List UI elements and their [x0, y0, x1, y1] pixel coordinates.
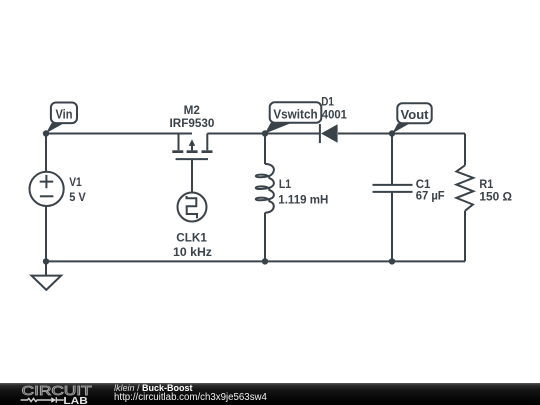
wire M2 gate to CLK1 — [191, 159, 193, 193]
label L1 — [279, 177, 291, 191]
svg-text:LAB: LAB — [63, 396, 88, 405]
wire Vin node to M2 source — [46, 133, 192, 135]
clock source CLK1 — [178, 193, 207, 222]
value 67 uF — [416, 189, 445, 203]
svg-text:V1: V1 — [69, 175, 82, 189]
svg-text:Vswitch: Vswitch — [273, 107, 317, 122]
value 150 Ohm — [479, 190, 512, 204]
wire ground stub — [45, 261, 47, 275]
value 5 V — [69, 190, 86, 204]
resistor R1 — [456, 165, 473, 211]
value 10 kHz — [173, 245, 212, 259]
ground — [32, 276, 62, 290]
node Vout junction dot — [389, 130, 395, 136]
wire bottom ground rail — [46, 260, 465, 262]
footer bar — [0, 383, 540, 405]
svg-text:Vout: Vout — [401, 107, 430, 122]
svg-text:D1: D1 — [321, 94, 334, 108]
value 4001 — [322, 107, 347, 121]
ground rail junction dot L1 — [262, 258, 268, 264]
node flag Vin — [46, 103, 77, 134]
wire R1 bottom lead — [464, 211, 466, 262]
svg-text:Vin: Vin — [56, 107, 73, 122]
ground rail junction dot left — [43, 258, 49, 264]
svg-text:67 µF: 67 µF — [416, 189, 445, 203]
label M2 — [184, 103, 200, 117]
wire V1 bottom lead — [45, 206, 47, 262]
svg-text:L1: L1 — [279, 177, 291, 191]
wire L1 bottom lead — [264, 213, 266, 262]
wire M2 drain to diode anode — [207, 133, 319, 135]
diode D1 — [320, 124, 338, 143]
wire C1 bottom lead — [391, 192, 393, 262]
value IRF9530 — [170, 116, 215, 130]
svg-text:10 kHz: 10 kHz — [173, 245, 212, 259]
footer title text — [114, 384, 267, 403]
label R1 — [479, 177, 493, 191]
wire V1 top lead — [45, 134, 47, 173]
svg-text:CLK1: CLK1 — [176, 231, 207, 245]
ground rail junction dot C1 — [389, 258, 395, 264]
svg-text:IRF9530: IRF9530 — [170, 116, 215, 130]
node flag Vswitch — [265, 102, 321, 133]
inductor L1 — [256, 164, 274, 213]
svg-text:M2: M2 — [184, 103, 200, 117]
wire C1 top lead — [391, 134, 393, 185]
svg-text:1.119 mH: 1.119 mH — [278, 192, 328, 206]
label CLK1 — [176, 231, 207, 245]
node flag Vout — [392, 103, 431, 133]
svg-text:4001: 4001 — [322, 107, 347, 121]
value 1.119 mH — [278, 192, 328, 206]
wire L1 top lead — [264, 134, 266, 165]
label C1 — [416, 177, 431, 191]
wire R1 top lead — [464, 134, 466, 166]
capacitor C1 — [373, 185, 413, 192]
wire diode cathode to top-right corner — [338, 133, 465, 135]
svg-text:5 V: 5 V — [69, 190, 86, 204]
CircuitLab logo — [0, 383, 110, 405]
label D1 — [321, 94, 334, 108]
voltage source V1 — [29, 172, 63, 206]
svg-text:150 Ω: 150 Ω — [479, 190, 512, 204]
node Vin junction dot — [43, 130, 49, 136]
transistor M2 (PMOS) — [172, 134, 212, 160]
node Vswitch junction dot — [262, 130, 268, 136]
label V1 — [69, 175, 82, 189]
